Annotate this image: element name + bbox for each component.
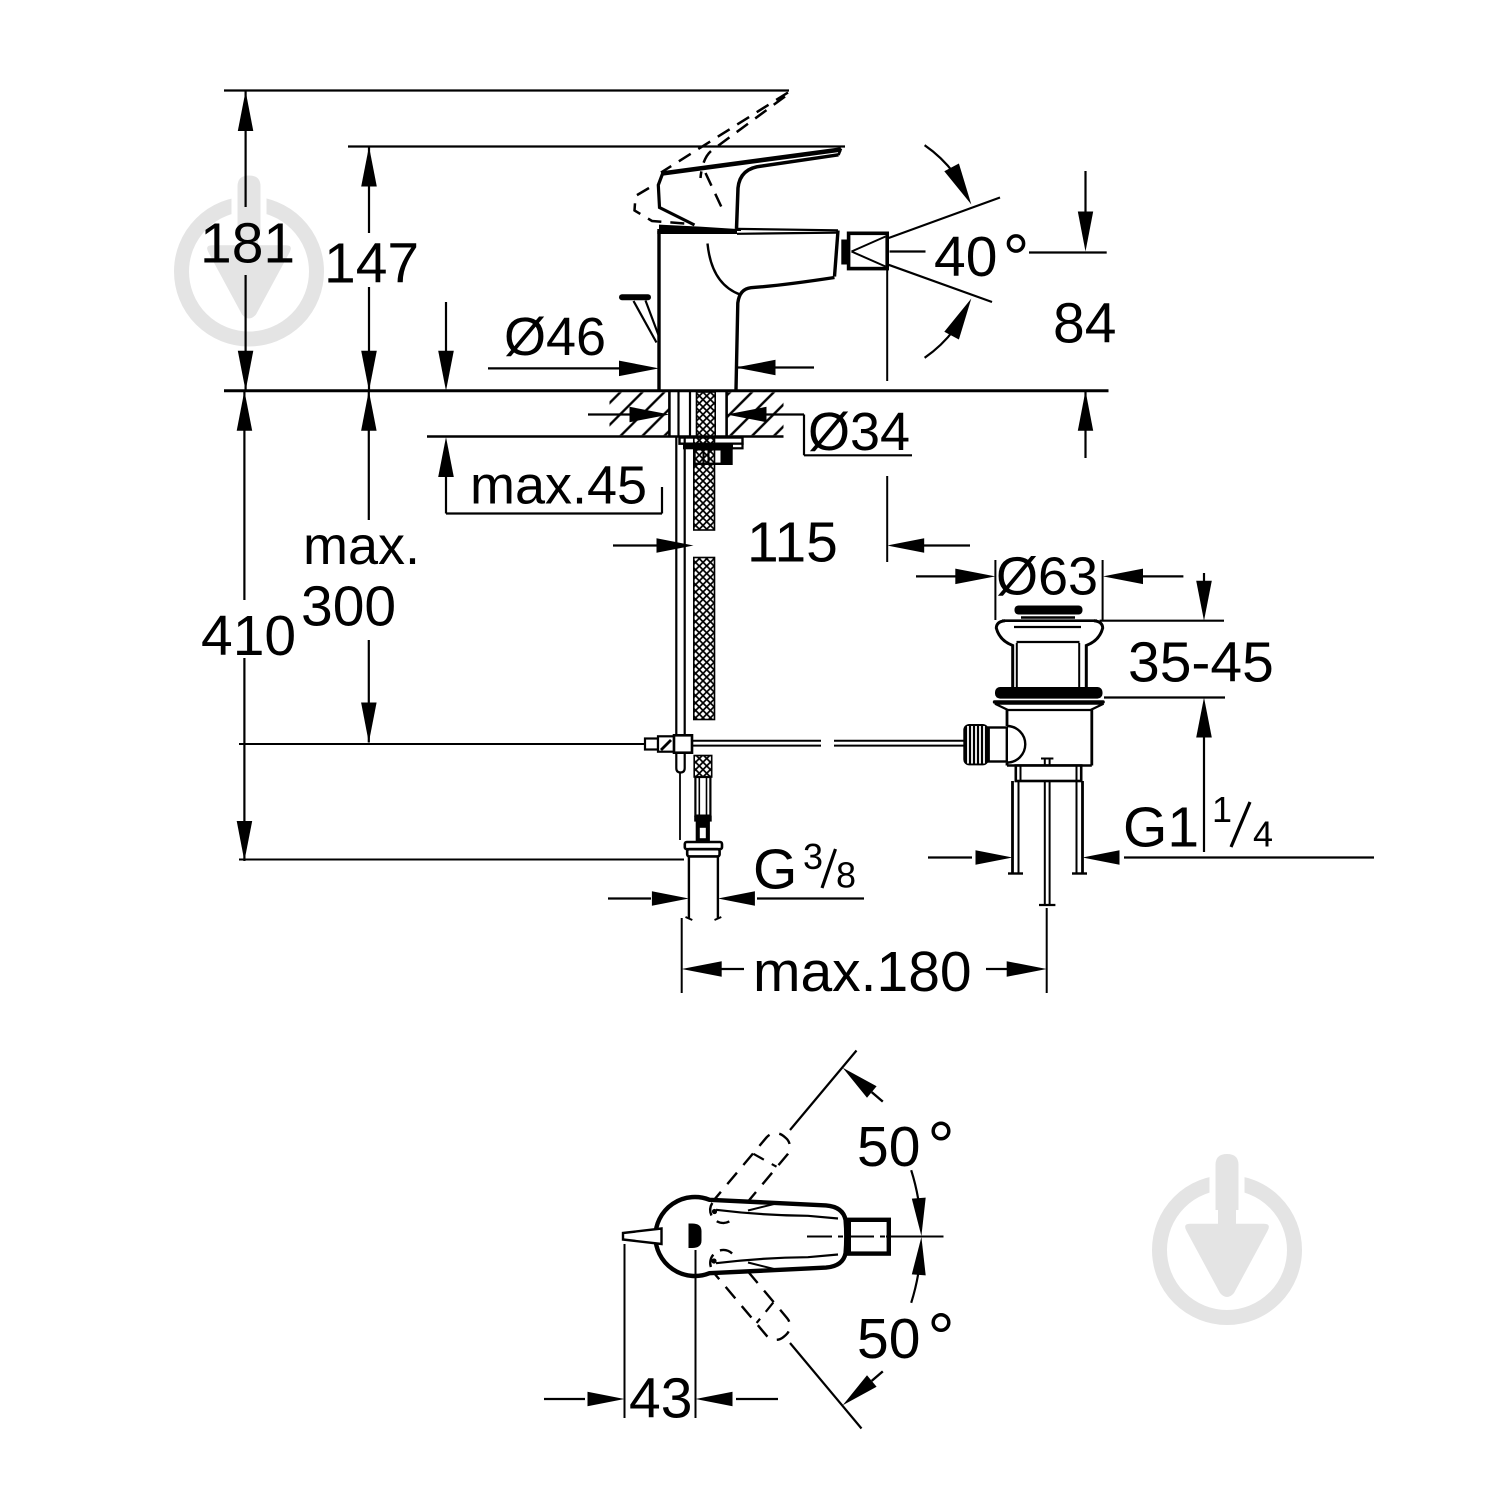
top view cartridge slot bbox=[689, 1224, 702, 1249]
pop-up rod knob bbox=[622, 294, 648, 300]
mounting nut black band bbox=[683, 444, 733, 450]
dimension G3/8 lines bbox=[608, 897, 651, 899]
svg-text:147: 147 bbox=[324, 232, 419, 296]
dimension G1 1/4 lines bbox=[928, 856, 972, 858]
faucet body top band bbox=[657, 229, 737, 234]
svg-text:Ø34: Ø34 bbox=[808, 402, 910, 462]
dimension 410 vertical line bbox=[243, 391, 245, 600]
svg-text:max.180: max.180 bbox=[753, 940, 972, 1004]
mounting nut body bbox=[695, 449, 732, 464]
svg-text:max.: max. bbox=[303, 516, 420, 576]
40 degree leader line bbox=[890, 250, 926, 252]
braided hose lower section bbox=[694, 756, 712, 778]
40 degree lower ray bbox=[852, 252, 993, 303]
svg-text:G: G bbox=[753, 838, 797, 902]
ghost handle base outline dashed bbox=[635, 188, 686, 224]
aerator extension line bbox=[886, 269, 888, 382]
drain rubber gasket bbox=[995, 687, 1103, 699]
drain knob stem bbox=[989, 728, 1007, 762]
top view pop-up pin bbox=[623, 1229, 662, 1245]
ghost handle upper edge dashed bbox=[661, 93, 788, 173]
linkage fitting bbox=[645, 739, 658, 750]
dimension 147 vertical line bbox=[368, 147, 370, 234]
50deg upper arc bbox=[911, 1170, 918, 1199]
G3/8 nut bbox=[685, 842, 722, 849]
top view stem square bbox=[849, 1220, 889, 1254]
linkage rod right segment bbox=[834, 740, 964, 742]
dimension 43 lines bbox=[544, 1398, 585, 1400]
dimension diameter 34 lines bbox=[588, 413, 630, 415]
dashed handle rotated down 50deg bbox=[704, 1243, 795, 1345]
dimension max.300 vertical line bbox=[368, 391, 370, 520]
dimension 43 extension lines bbox=[624, 1244, 626, 1418]
50deg upper ray bbox=[790, 1051, 857, 1131]
svg-text:Ø46: Ø46 bbox=[504, 307, 606, 367]
svg-text:max.45: max.45 bbox=[470, 456, 647, 516]
deck hatching left of shank bbox=[610, 392, 670, 435]
drain flange outline bbox=[996, 621, 1012, 688]
braided hose middle section bbox=[694, 558, 715, 720]
top view centerline dash-dot bbox=[807, 1236, 886, 1238]
hose end tube bbox=[695, 777, 710, 816]
watermark logo top-left bbox=[182, 176, 317, 340]
braided hose in shank bbox=[697, 392, 716, 437]
spout right end edge bbox=[835, 231, 839, 277]
dimension 35-45 vertical bbox=[1203, 573, 1205, 581]
svg-text:43: 43 bbox=[629, 1367, 692, 1431]
hose end black band bbox=[694, 816, 712, 822]
top view handle inner contours bbox=[716, 1210, 838, 1219]
35-45 reference lines bbox=[1100, 620, 1224, 622]
40 degree upper ray bbox=[852, 198, 1001, 252]
aerator box bbox=[849, 233, 888, 268]
drain center rod bbox=[1044, 759, 1046, 906]
mounting deck bottom line bbox=[427, 435, 784, 437]
svg-text:50: 50 bbox=[857, 1307, 920, 1371]
shank outer walls bbox=[668, 391, 671, 437]
diameter 63 extension lines bbox=[994, 560, 996, 620]
svg-text:4: 4 bbox=[1253, 814, 1273, 855]
ghost handle lower edge dashed bbox=[701, 97, 786, 179]
drain flange lower part bbox=[995, 704, 1104, 710]
svg-text:40: 40 bbox=[934, 225, 997, 289]
handle top edge bbox=[662, 150, 841, 174]
mounting washer bbox=[680, 438, 743, 444]
svg-text:Ø63: Ø63 bbox=[996, 547, 1098, 607]
dashed handle butt arcs bbox=[705, 1203, 732, 1228]
hose neck bbox=[697, 822, 709, 842]
dimension 84 vertical line bbox=[1084, 171, 1086, 215]
top view screw dots bbox=[712, 1209, 717, 1214]
svg-text:8: 8 bbox=[836, 855, 856, 896]
handle tip end bbox=[839, 149, 842, 156]
linkage rod left segment bbox=[692, 740, 821, 742]
handle back profile bbox=[658, 173, 694, 226]
max.300 reference line bbox=[239, 743, 645, 745]
G3/8 thread tube bbox=[688, 856, 690, 918]
dimension 181 vertical line bbox=[245, 91, 247, 207]
svg-text:300: 300 bbox=[301, 575, 396, 639]
svg-text:G1: G1 bbox=[1123, 796, 1199, 860]
50deg lower ray bbox=[790, 1343, 862, 1429]
svg-text:84: 84 bbox=[1053, 292, 1116, 356]
drain flange top line bbox=[1002, 619, 1097, 622]
extension line top (handle max height) bbox=[224, 89, 789, 91]
svg-text:1: 1 bbox=[1212, 789, 1232, 830]
handle pivot底 black wedge bbox=[659, 225, 741, 231]
dimension diameter 63 lines bbox=[916, 575, 956, 577]
drain collar bbox=[1016, 766, 1081, 782]
svg-text:410: 410 bbox=[201, 604, 296, 668]
bottom reference line (faucet total reach) bbox=[239, 859, 684, 861]
pop-up rod wire bbox=[679, 773, 681, 841]
extension line handle closed height bbox=[348, 145, 845, 147]
84 top reference line bbox=[1029, 251, 1107, 253]
drain body port arc bbox=[1007, 726, 1025, 763]
dimension max.180 lines bbox=[722, 968, 745, 970]
braided hose upper section bbox=[694, 437, 715, 531]
aerator box diagonals bbox=[852, 237, 886, 252]
50deg lower arc bbox=[911, 1274, 918, 1303]
dashed handle rotated up 50deg bbox=[704, 1128, 795, 1230]
dimension 115 lines bbox=[613, 544, 657, 546]
40 degree lower arc with arrow bbox=[925, 329, 955, 358]
svg-text:35-45: 35-45 bbox=[1128, 631, 1274, 695]
spout top edge double line bbox=[737, 229, 838, 230]
drain outlet tube bbox=[1011, 781, 1014, 874]
svg-text:115: 115 bbox=[747, 511, 838, 575]
watermark logo bottom-right bbox=[1160, 1154, 1295, 1318]
spout underside curve bbox=[736, 278, 835, 390]
dimension diameter 46 lines bbox=[488, 367, 620, 369]
body shoulder interior curve bbox=[708, 244, 741, 295]
dimension max.45 leader box bbox=[445, 302, 447, 352]
deck hatching right of shank bbox=[727, 392, 784, 435]
drain knob knurled bbox=[963, 724, 988, 765]
40 degree upper arc with arrow bbox=[925, 145, 955, 174]
svg-text:3: 3 bbox=[803, 836, 823, 877]
aerator gap black band bbox=[841, 240, 848, 265]
ghost handle inner edge dashed bbox=[706, 173, 725, 213]
svg-text:50: 50 bbox=[857, 1115, 920, 1179]
handle underside and neck bbox=[737, 155, 839, 229]
mounting deck top surface line bbox=[224, 389, 1109, 392]
top view handle body bbox=[655, 1197, 846, 1276]
faucet body left edge bbox=[657, 231, 660, 390]
pop-up rod tube in shank bbox=[677, 392, 679, 437]
pop-up rod tube below deck bbox=[676, 437, 684, 773]
drain valve body bbox=[1006, 710, 1009, 726]
svg-text:181: 181 bbox=[200, 212, 295, 276]
max.180 extension lines bbox=[681, 918, 683, 993]
drain valve plug cap bbox=[1015, 606, 1083, 615]
